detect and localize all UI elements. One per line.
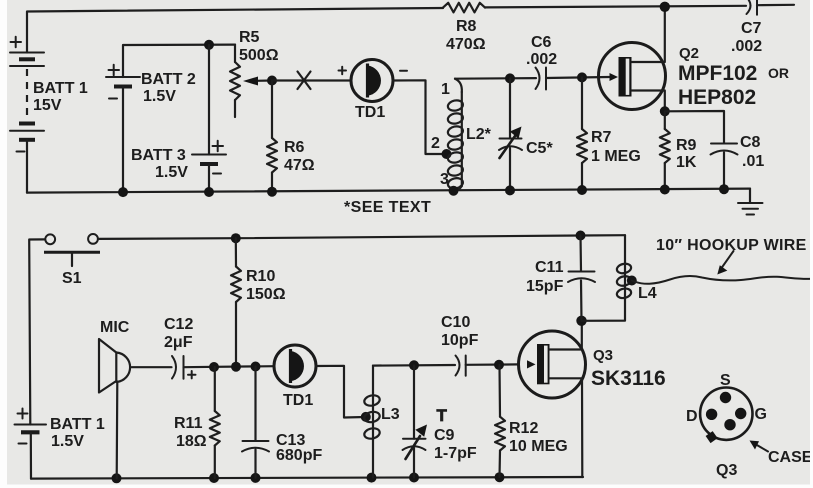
wire L2 top to C6 (455, 77, 536, 80)
wire bottom bus (top circuit) (27, 189, 750, 193)
wire bottom bus (bottom circuit) (31, 477, 583, 479)
resistor R11 (174, 367, 220, 478)
node bus junctions (bottom circuit) (112, 472, 505, 483)
battery BATT 3 (131, 45, 226, 181)
transistor Q2 (FET) (599, 7, 790, 111)
resistor R8 (443, 3, 486, 53)
svg-text:470Ω: 470Ω (446, 36, 486, 53)
capacitor C7 (731, 0, 762, 55)
variable capacitor C9 (403, 365, 477, 477)
node C5 top junction (505, 73, 515, 83)
inductor L2 (431, 79, 492, 192)
wire top bus left segment (27, 8, 443, 53)
svg-text:10pF: 10pF (441, 332, 479, 349)
svg-text:L2*: L2* (466, 126, 492, 143)
svg-text:R11: R11 (174, 415, 203, 432)
wire MIC to C12 (132, 366, 172, 368)
wire BATT1b to bottom bus (30, 432, 32, 478)
wire C6 to Q2 gate (546, 77, 609, 78)
svg-text:BATT 1: BATT 1 (50, 416, 105, 433)
svg-text:2: 2 (431, 135, 440, 152)
inductor L3 (363, 366, 399, 478)
wire BATT2/BATT3 top link (123, 45, 235, 77)
svg-text:18Ω: 18Ω (176, 433, 207, 450)
pin case-center (724, 419, 735, 430)
antenna hookup wire (632, 276, 811, 284)
battery BATT 1 (top circuit) (10, 37, 88, 152)
Q3 pinout case outline (700, 388, 752, 440)
wire C12 to TD1 (184, 366, 275, 367)
svg-text:L3: L3 (381, 406, 400, 423)
node L2 tap 2 (442, 149, 452, 159)
node Q2 drain on bus (660, 2, 670, 12)
pin D (706, 409, 717, 420)
svg-text:R7: R7 (591, 129, 612, 146)
resistor R7 (577, 77, 641, 189)
node R7 top junction (577, 72, 587, 82)
capacitor C13 (242, 367, 322, 478)
svg-text:1-7pF: 1-7pF (434, 445, 477, 462)
capacitor C6 (526, 34, 557, 90)
svg-text:D: D (686, 408, 698, 425)
node bus junctions (top circuit) (118, 184, 729, 197)
svg-text:C8: C8 (740, 134, 761, 151)
wire C10 to Q3 gate (466, 363, 519, 366)
svg-text:S: S (720, 372, 731, 389)
battery BATT 2 (106, 65, 196, 105)
svg-text:C11: C11 (535, 259, 564, 276)
node R11 top (209, 362, 219, 372)
wire top bus right segment (485, 6, 746, 8)
svg-text:150Ω: 150Ω (246, 286, 286, 303)
tunnel diode TD1 (bottom) (274, 345, 316, 409)
wire after C7 (757, 4, 794, 7)
svg-text:TD1: TD1 (355, 104, 385, 121)
svg-text:C7: C7 (741, 20, 762, 37)
wire BATT3 bottom lead (208, 164, 210, 192)
svg-text:OR: OR (768, 65, 789, 81)
wire BATT2 bottom lead (122, 87, 124, 193)
pin S (720, 392, 731, 403)
X mark (see text) (298, 72, 311, 90)
variable capacitor C5 (499, 78, 553, 190)
svg-text:R5: R5 (239, 29, 260, 46)
svg-text:C10: C10 (441, 314, 470, 331)
tunnel diode TD1 (top) (339, 60, 408, 122)
capacitor C8 (665, 111, 765, 189)
svg-text:C12: C12 (164, 316, 193, 333)
svg-text:R10: R10 (246, 268, 275, 285)
resistor R10 (231, 238, 286, 366)
svg-text:Q3: Q3 (716, 462, 737, 479)
capacitor C10 (441, 314, 479, 376)
node R12 top (494, 360, 504, 370)
svg-text:10 MEG: 10 MEG (509, 438, 568, 455)
capacitor C12 (164, 316, 196, 379)
svg-text:*SEE TEXT: *SEE TEXT (344, 199, 431, 216)
svg-text:S1: S1 (62, 270, 82, 287)
case tab (706, 431, 718, 443)
svg-text:.01: .01 (742, 153, 764, 170)
resistor R12 (495, 365, 568, 477)
svg-text:.002: .002 (731, 38, 762, 55)
page margins (0, 0, 7, 488)
svg-text:Q2: Q2 (679, 45, 699, 62)
transistor Q3 (FET) (519, 321, 666, 477)
wire left rail (bottom circuit) (29, 239, 45, 424)
svg-text:BATT 2: BATT 2 (141, 71, 196, 88)
svg-text:2μF: 2μF (164, 334, 193, 351)
switch S1 (44, 234, 100, 287)
svg-text:C9: C9 (434, 427, 455, 444)
node R5 wiper junction (267, 76, 277, 86)
svg-text:T: T (437, 406, 448, 425)
node C11 top junction (576, 231, 586, 241)
svg-text:HEP802: HEP802 (678, 86, 756, 109)
svg-text:SK3116: SK3116 (591, 367, 666, 390)
svg-text:BATT 3: BATT 3 (131, 147, 186, 164)
node C11 bottom junction (576, 316, 586, 326)
svg-text:CASE: CASE (768, 449, 813, 466)
svg-text:BATT 1: BATT 1 (33, 80, 88, 97)
svg-text:1 MEG: 1 MEG (591, 148, 641, 165)
node C13 top (251, 362, 261, 372)
svg-text:C6: C6 (531, 34, 552, 51)
wire top bus (bottom circuit) (98, 235, 625, 239)
wire TD1 to L2 tap 2 (393, 80, 446, 154)
battery BATT 1 (bottom circuit) (15, 409, 105, 451)
node BATT3/R5 junction (204, 40, 214, 50)
wire TD1 to L3 tap (316, 366, 365, 418)
svg-text:R8: R8 (456, 18, 477, 35)
label 10in hookup wire (656, 237, 807, 275)
wire L3 top to C10 (373, 364, 455, 367)
svg-text:680pF: 680pF (276, 447, 322, 464)
svg-text:10″ HOOKUP WIRE: 10″ HOOKUP WIRE (656, 237, 807, 254)
node R10 bottom (231, 362, 241, 372)
svg-text:C5*: C5* (526, 140, 553, 157)
label CASE with arrow (750, 441, 813, 467)
svg-text:R12: R12 (509, 420, 538, 437)
node R10 top (231, 233, 241, 243)
wire BATT1 bottom lead (26, 140, 28, 193)
wire wiper to TD1 (272, 79, 351, 81)
svg-text:500Ω: 500Ω (239, 47, 279, 64)
inductor L4 (582, 235, 657, 321)
svg-text:G: G (755, 406, 767, 423)
svg-text:L4: L4 (638, 285, 657, 302)
node L4 tap (627, 276, 637, 286)
svg-text:MPF102: MPF102 (678, 62, 757, 85)
svg-text:15V: 15V (33, 97, 62, 114)
svg-text:.002: .002 (526, 51, 557, 68)
svg-text:Q3: Q3 (593, 347, 613, 364)
svg-text:MIC: MIC (100, 319, 130, 336)
node Q2 source junction (660, 106, 670, 116)
capacitor C11 (526, 236, 595, 321)
svg-text:R6: R6 (284, 139, 305, 156)
svg-text:TD1: TD1 (283, 392, 313, 409)
svg-text:R9: R9 (676, 137, 697, 154)
svg-text:1K: 1K (676, 154, 697, 171)
svg-text:1.5V: 1.5V (51, 433, 84, 450)
microphone MIC (99, 319, 130, 478)
svg-text:3: 3 (440, 171, 449, 188)
node C9 top (409, 360, 419, 370)
resistor R9 (660, 111, 697, 189)
svg-text:1.5V: 1.5V (143, 88, 176, 105)
resistor R6 (267, 81, 315, 193)
svg-text:1: 1 (441, 81, 450, 98)
svg-text:47Ω: 47Ω (284, 157, 315, 174)
pin G (735, 408, 746, 419)
node L3 tap (361, 412, 371, 422)
svg-text:1.5V: 1.5V (155, 164, 188, 181)
potentiometer R5 (230, 29, 279, 117)
ground (738, 189, 763, 215)
svg-text:15pF: 15pF (526, 278, 564, 295)
